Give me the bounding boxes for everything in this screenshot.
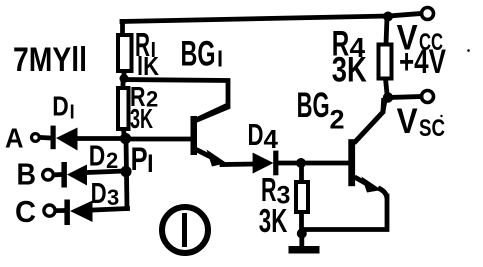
svg-text:V: V xyxy=(397,102,419,141)
svg-text:l: l xyxy=(217,47,223,72)
svg-text:BG: BG xyxy=(181,35,216,74)
wire top rail xyxy=(122,16,388,22)
figure number circled 1 xyxy=(162,207,208,253)
terminal C xyxy=(44,205,55,216)
svg-text:l: l xyxy=(70,103,75,124)
svg-text:SC: SC xyxy=(419,115,445,142)
wire input C terminal stub xyxy=(57,208,65,213)
wire BG1 base xyxy=(126,137,190,142)
wire D4 to BG2 base node xyxy=(278,161,300,166)
svg-text:3: 3 xyxy=(107,185,119,210)
wire BG1 emitter to D4 xyxy=(222,162,253,167)
node R1-R2 junction xyxy=(120,74,129,83)
svg-text:B: B xyxy=(17,157,37,192)
wire input bus vertical xyxy=(126,138,127,209)
node Vcc rail junction xyxy=(383,12,393,22)
resistor R1 xyxy=(118,35,132,71)
wire input A terminal stub xyxy=(41,135,51,140)
svg-text:3K: 3K xyxy=(259,202,288,239)
node D4 / R3 / BG2 base xyxy=(296,158,306,168)
svg-text:D: D xyxy=(91,178,107,210)
resistor R3 xyxy=(296,182,308,212)
svg-text:3K: 3K xyxy=(130,103,153,134)
wire input B terminal stub xyxy=(56,172,62,177)
wire R4 bottom stub xyxy=(386,79,388,95)
wire R2 top stub xyxy=(121,80,126,88)
svg-text:2: 2 xyxy=(106,148,118,173)
diode D2 xyxy=(61,162,87,188)
terminal Vsc xyxy=(422,91,434,103)
svg-text:4: 4 xyxy=(264,124,279,154)
scan speck xyxy=(440,115,442,117)
wire R3 top stub xyxy=(299,166,304,182)
svg-text:D: D xyxy=(248,117,264,152)
wire Vcc terminal lead xyxy=(388,14,421,17)
resistor R2 xyxy=(118,88,129,129)
wire R2 bottom stub xyxy=(124,129,125,139)
wire input C row xyxy=(93,209,128,211)
resistor R4 xyxy=(379,45,392,79)
ground xyxy=(289,246,320,254)
node Vsc junction xyxy=(383,92,393,102)
terminal B xyxy=(43,170,54,181)
scan speck xyxy=(467,49,470,52)
diode D4 xyxy=(253,151,279,176)
svg-text:7MYll: 7MYll xyxy=(13,41,87,79)
transistor BG2 xyxy=(348,98,387,198)
svg-text:lK: lK xyxy=(137,51,159,81)
svg-text:D: D xyxy=(89,141,106,173)
wire R4 top stub xyxy=(386,17,387,45)
wire BG2 base xyxy=(302,161,348,166)
diode D1 xyxy=(51,126,78,151)
svg-text:C: C xyxy=(15,194,36,229)
wire BG2 collector riser xyxy=(383,98,386,111)
wire emitter return bottom xyxy=(303,196,387,230)
wire input A row xyxy=(78,136,125,141)
svg-text:P: P xyxy=(131,141,148,177)
wire R1-R2 junction to collector riser xyxy=(123,80,228,121)
svg-text:3K: 3K xyxy=(332,51,367,90)
terminal A xyxy=(32,134,40,142)
svg-text:2: 2 xyxy=(330,105,345,135)
wire R1 bottom stub xyxy=(122,71,127,80)
wire input B row xyxy=(87,171,125,173)
svg-text:+4V: +4V xyxy=(399,43,446,81)
wire R3 bottom stub xyxy=(299,212,304,231)
svg-text:A: A xyxy=(5,123,24,154)
wire ground stub xyxy=(299,234,304,247)
terminal Vcc xyxy=(422,8,434,20)
wire Vsc terminal lead xyxy=(388,97,421,98)
node B row junction xyxy=(120,166,131,177)
svg-text:BG: BG xyxy=(297,86,330,125)
svg-text:D: D xyxy=(52,90,69,121)
node P1 (A row / R2 / base) xyxy=(120,133,131,144)
diode D3 xyxy=(64,200,92,226)
node R3 bottom / emitter return xyxy=(297,229,307,239)
transistor BG1 xyxy=(191,105,229,167)
svg-text:l: l xyxy=(147,151,154,178)
wire R1 top stub xyxy=(120,22,125,36)
